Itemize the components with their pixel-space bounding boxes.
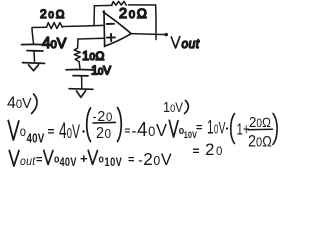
big V of Vo40V: [8, 121, 18, 141]
wire: non-inverting input from R3: [78, 37, 105, 40]
svg-text:out: out: [182, 37, 200, 52]
svg-text:=: =: [48, 125, 55, 139]
svg-text:10Ω: 10Ω: [82, 48, 105, 63]
svg-text:20Ω: 20Ω: [248, 132, 272, 150]
svg-text:10V: 10V: [163, 98, 184, 115]
svg-text:o: o: [99, 154, 104, 166]
svg-text:o: o: [54, 154, 59, 166]
label Vout: V stroke: [171, 37, 180, 48]
battery V2 10V top plate: [66, 69, 95, 71]
svg-text:+: +: [80, 151, 88, 166]
svg-text:20: 20: [96, 124, 111, 142]
node: Vout terminal dot: [165, 33, 168, 36]
svg-text:-20V: -20V: [138, 149, 172, 170]
svg-text:20Ω: 20Ω: [249, 113, 271, 130]
annotation: case header 40V): [7, 94, 37, 114]
svg-text:=: =: [36, 154, 42, 166]
wire: V2 to ground: [81, 76, 83, 88]
big V of Vo10V: [169, 120, 178, 137]
right paren: [118, 108, 122, 142]
wire: R3 to battery V2: [78, 62, 81, 69]
svg-text:40V: 40V: [27, 132, 45, 145]
fraction bar: [93, 121, 116, 124]
svg-text:40V: 40V: [7, 94, 32, 113]
annotation: case header 10V): [163, 98, 188, 115]
svg-text:=: =: [196, 122, 202, 134]
battery V1 bottom plate: [27, 50, 43, 52]
svg-text:10V: 10V: [91, 63, 111, 78]
resistor R3 10ohm (vertical): [74, 48, 80, 61]
wire: down to R3: [77, 39, 79, 48]
svg-text:20: 20: [205, 140, 224, 159]
op-amp U1 top edge: [103, 12, 131, 33]
wire: V1 to ground: [33, 51, 36, 62]
svg-text:=: =: [193, 144, 200, 158]
op-amp U1 bottom edge: [105, 34, 131, 46]
svg-text:o: o: [20, 124, 26, 139]
svg-text:=: =: [125, 126, 131, 137]
battery V1 40V top plate: [22, 43, 49, 45]
ground (V2) bar: [69, 88, 93, 91]
svg-text:out: out: [20, 155, 36, 168]
right paren: [273, 114, 277, 145]
wire: feedback top left segment: [94, 4, 112, 6]
resistor R2 20ohm (feedback): [112, 1, 127, 5]
ground (V1) bar: [23, 62, 45, 65]
op-amp U1 non-inverting plus sign: [107, 34, 115, 41]
fraction bar: [248, 128, 273, 131]
big V of Vout: [9, 151, 19, 167]
wire: R1 to op-amp inverting input: [63, 25, 104, 26]
wire: R2 to feedback drop: [129, 4, 156, 6]
svg-text:10V: 10V: [105, 157, 123, 169]
ground (V1) arrowhead: [29, 65, 39, 71]
V of Vo40V: [44, 150, 53, 164]
svg-text:10V: 10V: [207, 118, 226, 138]
annotation: result = 20: [193, 140, 224, 159]
wire: feedback tap up from inverting input node: [93, 6, 95, 26]
left paren: [87, 108, 91, 142]
ground (V2) arrowhead: [77, 91, 86, 98]
wire: V1 top to R1 left: [32, 27, 47, 43]
left paren: [231, 114, 235, 144]
annotation: equation Vo40V = 40V(-20/20) = -40V: [8, 108, 167, 146]
svg-text:-40V: -40V: [132, 119, 168, 141]
wire: feedback drop to output node: [155, 5, 157, 40]
resistor R1 20ohm (input): [47, 23, 63, 29]
svg-text:40V: 40V: [60, 157, 77, 169]
wire: op-amp output to Vout node: [131, 34, 166, 35]
V of Vo10V: [88, 150, 97, 164]
svg-text:40V: 40V: [59, 118, 80, 143]
op-amp U1 inverting input dash: [107, 23, 114, 25]
op-amp U1 left edge: [103, 11, 106, 47]
svg-text:=: =: [128, 154, 134, 166]
annotation: equation Vo10V = 10V(1+20/20): [169, 113, 277, 151]
annotation: equation Vout = Vo40V + Vo10V = -20V: [9, 149, 172, 170]
svg-text:20Ω: 20Ω: [40, 7, 66, 21]
svg-text:20Ω: 20Ω: [119, 6, 149, 22]
svg-text:40V: 40V: [42, 35, 67, 52]
battery V2 bottom plate: [73, 75, 88, 77]
